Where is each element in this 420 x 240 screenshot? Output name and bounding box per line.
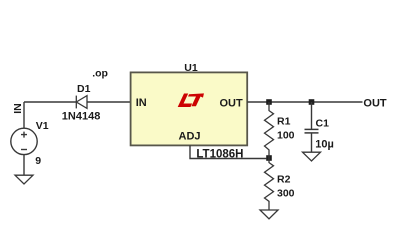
svg-text:R1: R1 [277, 116, 291, 128]
svg-text:IN: IN [136, 97, 147, 109]
svg-text:100: 100 [277, 130, 295, 142]
ground (V1) [15, 175, 33, 184]
svg-text:OUT: OUT [363, 97, 387, 109]
svg-text:U1: U1 [184, 62, 198, 74]
svg-text:.op: .op [92, 68, 108, 80]
diode D1 [76, 96, 87, 109]
LT logo [178, 93, 205, 107]
wire V1 bottom to ground [23, 155, 25, 176]
svg-text:V1: V1 [36, 120, 49, 132]
voltage source V1 [11, 128, 37, 154]
svg-text:R2: R2 [277, 173, 291, 185]
svg-text:1N4148: 1N4148 [62, 111, 101, 123]
resistor R1 [265, 102, 274, 158]
wire ADJ pin down and right to junction [190, 145, 267, 158]
ground (R2) [260, 210, 278, 219]
junction at ADJ / R1 / R2 [266, 155, 272, 161]
op-amp U1 (LT1086H regulator block) [131, 72, 248, 145]
wire from IN node to diode D1 anode [24, 101, 76, 103]
svg-text:C1: C1 [316, 117, 330, 129]
capacitor C1 [311, 102, 313, 129]
svg-text:ADJ: ADJ [179, 130, 201, 142]
svg-text:OUT: OUT [220, 97, 244, 109]
svg-text:10µ: 10µ [315, 139, 334, 151]
svg-text:IN: IN [12, 103, 24, 114]
junction at R1 top [266, 99, 272, 105]
ground (C1) [303, 152, 321, 161]
wire from IN node down to V1 [23, 102, 25, 128]
wire diode cathode to U1 IN pin [87, 101, 131, 103]
svg-text:9: 9 [35, 155, 41, 167]
svg-text:D1: D1 [77, 83, 91, 95]
wire U1 OUT pin to OUT flag [247, 101, 362, 103]
svg-text:300: 300 [277, 188, 295, 200]
junction at C1 top [309, 99, 315, 105]
resistor R2 [265, 158, 274, 210]
